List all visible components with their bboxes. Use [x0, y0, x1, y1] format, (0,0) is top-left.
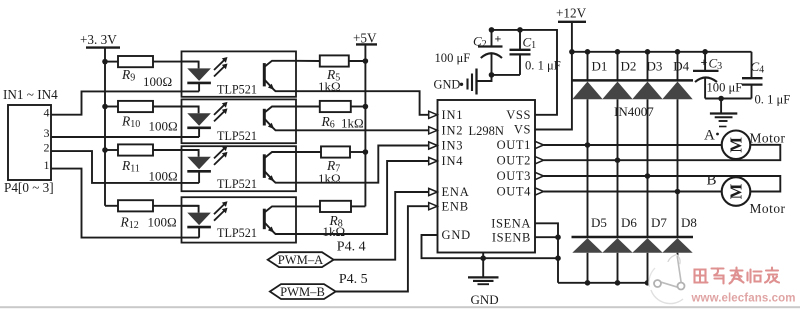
- driver IC U1 L298N box: [438, 100, 536, 253]
- opto4 light emission arrow 1: [214, 203, 226, 215]
- node junction R5: [363, 58, 369, 64]
- svg-text:4: 4: [44, 106, 50, 120]
- svg-text:D2: D2: [621, 59, 637, 74]
- opto3 LED triangle: [187, 157, 211, 170]
- L298N pin OUT1 output arrow: [535, 141, 543, 148]
- svg-text:TLP521: TLP521: [217, 129, 257, 143]
- svg-text:D5: D5: [591, 215, 607, 230]
- wire L298N bottom stub: [482, 253, 484, 259]
- optocoupler U4 TLP521 box: [182, 197, 297, 242]
- node junction D2 top: [615, 49, 621, 55]
- opto3 LED anode lead: [182, 150, 199, 157]
- svg-text:1: 1: [44, 158, 50, 172]
- svg-text:TLP521: TLP521: [217, 177, 257, 191]
- wire opto1 emitter to IN1: [296, 91, 429, 115]
- svg-text:OUT3: OUT3: [497, 169, 531, 183]
- optocoupler U3 TLP521 box: [182, 146, 297, 191]
- svg-text:GND: GND: [434, 78, 461, 92]
- svg-text:+3. 3V: +3. 3V: [80, 32, 117, 47]
- L298N pin ENA input arrow: [429, 188, 438, 195]
- node junction cap bottom: [489, 72, 495, 78]
- wire opto4 emitter to IN4: [296, 161, 429, 234]
- opto4 phototransistor emitter with arrow: [265, 223, 297, 235]
- svg-text:PWM–A: PWM–A: [278, 253, 323, 267]
- wire capacitor bottoms: [492, 74, 521, 76]
- capacitor C4 0.1uF: [751, 52, 753, 78]
- svg-text:M: M: [727, 183, 746, 199]
- node junction C3 top: [702, 49, 708, 55]
- opto4 LED cathode bar: [187, 226, 211, 229]
- svg-text:L298N: L298N: [469, 124, 504, 138]
- wire ISENA to sense node: [535, 223, 558, 282]
- svg-text:0. 1 μF: 0. 1 μF: [755, 93, 791, 107]
- svg-text:OUT4: OUT4: [497, 185, 531, 199]
- opto3 LED cathode bar: [187, 170, 211, 173]
- L298N pin IN4 input arrow: [429, 157, 438, 164]
- wire R7 to +5V rail: [350, 151, 365, 153]
- svg-text:D8: D8: [681, 215, 697, 230]
- wire opto2 collector to R6: [296, 106, 320, 108]
- svg-text:ISENB: ISENB: [492, 230, 531, 244]
- resistor R6 1kohm: [320, 101, 351, 112]
- svg-text:D3: D3: [647, 59, 663, 74]
- node junction OUT2-D2: [615, 157, 621, 163]
- wire +3.3V rail to R12: [105, 205, 118, 207]
- svg-text:IN1 ~ IN4: IN1 ~ IN4: [3, 87, 58, 102]
- svg-text:3: 3: [44, 126, 50, 140]
- wire diode D3 anode down: [647, 99, 649, 237]
- wire OUT4 to motor B left: [544, 191, 722, 193]
- opto3 LED cathode lead: [198, 171, 200, 183]
- svg-text:ENA: ENA: [442, 185, 470, 199]
- svg-text:TLP521: TLP521: [217, 226, 257, 240]
- wire OUT3 to motor B right: [544, 176, 781, 192]
- diode D6 triangle: [602, 238, 632, 253]
- opto3 phototransistor collector: [265, 152, 297, 158]
- wire ISENB to sense node: [535, 236, 558, 238]
- node junction C3 ground: [718, 96, 724, 102]
- svg-text:www.elecfans.com: www.elecfans.com: [691, 293, 796, 305]
- signal tag PWM-A: [268, 252, 334, 267]
- ground GND symbol sideways: [475, 69, 477, 95]
- motor A circle: [722, 131, 751, 160]
- svg-text:IN1: IN1: [442, 108, 464, 122]
- node junction R9 feed: [102, 59, 108, 65]
- wire PWM-B to ENB: [336, 206, 429, 291]
- L298N pin IN1 input arrow: [429, 111, 438, 118]
- wire diode D1 anode down: [587, 99, 589, 237]
- diode D1-D4 common cathode bar: [572, 79, 694, 82]
- node junction R10 feed: [102, 104, 108, 110]
- opto1 phototransistor base bar: [263, 63, 266, 86]
- svg-text:100 μF: 100 μF: [435, 51, 471, 65]
- svg-text:1kΩ: 1kΩ: [341, 116, 364, 131]
- optocoupler U2 TLP521 box: [182, 99, 297, 143]
- wire OUT1 to motor A left: [544, 144, 722, 146]
- svg-text:IN4007: IN4007: [614, 104, 654, 119]
- node junction D4 top: [675, 49, 681, 55]
- node junction D3 top: [645, 49, 651, 55]
- resistor R9 100ohm: [118, 56, 153, 67]
- opto2 light emission arrow 2: [214, 110, 226, 122]
- svg-text:ENB: ENB: [442, 199, 469, 213]
- wire OUT2 to motor A right: [544, 145, 781, 160]
- svg-text:D7: D7: [651, 215, 667, 230]
- wire rail to diode D2: [617, 52, 619, 81]
- node junction OUT3-D3: [645, 173, 651, 179]
- node junction C2 top: [489, 27, 495, 33]
- diode D8 triangle: [662, 238, 692, 253]
- opto1 LED cathode bar: [187, 82, 211, 85]
- node junction R6: [363, 104, 369, 110]
- svg-text:VSS: VSS: [506, 108, 531, 122]
- svg-text:TLP521: TLP521: [217, 83, 257, 97]
- watermark text dianzifashaoyou: [695, 270, 708, 283]
- motor B circle: [722, 177, 751, 206]
- opto2 light emission arrow 1: [214, 103, 226, 115]
- opto1 light emission arrow 1: [214, 58, 226, 70]
- svg-text:PWM–B: PWM–B: [280, 285, 325, 299]
- L298N pin OUT3 output arrow: [535, 172, 543, 179]
- wire rail to diode D1: [587, 52, 589, 81]
- node junction L298N gnd: [480, 255, 486, 261]
- svg-text:Motor: Motor: [750, 201, 786, 216]
- wire GND pin to ground rail: [422, 235, 559, 258]
- scan artifact grey strip at bottom: [0, 306, 800, 308]
- svg-text:+: +: [701, 55, 708, 69]
- svg-text:IN2: IN2: [442, 124, 464, 138]
- wire diode D7 anode down: [647, 253, 649, 283]
- wire opto2 emitter to IN2: [296, 129, 429, 131]
- opto1 LED triangle: [187, 68, 211, 81]
- wire VS pin to +12V: [535, 22, 572, 130]
- svg-text:100Ω: 100Ω: [143, 74, 172, 89]
- node junction +12V rail: [569, 49, 575, 55]
- svg-text:+12V: +12V: [556, 6, 587, 21]
- node junction C1 top: [517, 27, 523, 33]
- resistor R12 100ohm: [118, 200, 153, 211]
- opto2 LED cathode lead: [198, 128, 200, 137]
- watermark logo white badge: [667, 255, 680, 268]
- wire opto3 emitter to IN3: [296, 146, 429, 183]
- wire R5 to +5V rail: [349, 60, 366, 62]
- diode D1 IN4007 triangle: [572, 82, 602, 100]
- wire opto4 collector to R8: [296, 205, 320, 207]
- L298N pin IN3 input arrow: [429, 142, 438, 149]
- wire C3 C4 bottoms: [705, 98, 751, 100]
- L298N pin IN2 input arrow: [429, 127, 438, 134]
- ground symbol right: [720, 99, 722, 114]
- opto3 light emission arrow 2: [214, 153, 226, 165]
- wire VSS pin to capacitor top rail: [492, 30, 558, 115]
- wire rail to diode D3: [647, 52, 649, 81]
- capacitor C1 0.1uF: [519, 30, 521, 50]
- diode D5-D8 common cathode bar: [572, 236, 694, 239]
- wire opto1 collector to R5: [296, 60, 320, 62]
- svg-text:OUT1: OUT1: [497, 138, 531, 152]
- wire R10 to opto2 LED anode: [153, 106, 199, 108]
- svg-text:0. 1 μF: 0. 1 μF: [525, 59, 561, 73]
- opto2 phototransistor base bar: [263, 109, 266, 126]
- wire pin1 to opto4 LED cathode: [51, 169, 199, 238]
- diode D5 triangle: [572, 238, 602, 253]
- node junction sense-gnd: [555, 255, 561, 261]
- opto2 LED anode lead: [182, 107, 199, 114]
- capacitor C2 100uF electrolytic: [491, 30, 493, 47]
- svg-text:100 μF: 100 μF: [707, 81, 743, 95]
- svg-text:P4. 5: P4. 5: [339, 272, 368, 287]
- node junction R11 feed: [102, 147, 108, 153]
- node junction D5 bottom: [585, 280, 591, 286]
- wire pin2 to opto3 LED cathode: [51, 151, 199, 183]
- opto1 LED cathode lead: [198, 83, 200, 92]
- opto3 phototransistor emitter with arrow: [265, 171, 297, 183]
- L298N pin ENB input arrow: [429, 203, 438, 210]
- wire pin3 to opto2 LED cathode: [51, 136, 199, 138]
- opto4 phototransistor collector: [265, 206, 297, 212]
- svg-text:+: +: [495, 32, 502, 46]
- opto1 phototransistor collector: [265, 61, 297, 67]
- node junction ISENB: [555, 234, 561, 240]
- wire +3.3V rail to R9: [105, 61, 118, 63]
- wire +12V top rail: [572, 51, 752, 53]
- diode D2 IN4007 triangle: [602, 82, 632, 100]
- optocoupler U1 TLP521 box: [182, 51, 297, 96]
- svg-text:VS: VS: [514, 123, 531, 137]
- wire +3.3V rail to R11: [105, 149, 118, 151]
- resistor R7 1kohm: [321, 146, 350, 157]
- wire R12 to opto4 LED anode: [153, 205, 199, 207]
- svg-text:OUT2: OUT2: [497, 153, 531, 167]
- opto2 phototransistor emitter with arrow: [265, 119, 297, 131]
- opto1 LED anode lead: [182, 62, 199, 69]
- diode D4 IN4007 triangle: [662, 82, 692, 100]
- opto1 light emission arrow 2: [214, 65, 226, 77]
- wire diode D5 anode down: [587, 253, 589, 283]
- node junction OUT4-D4: [675, 189, 681, 195]
- ground symbol bottom: [482, 258, 484, 277]
- svg-text:GND: GND: [471, 292, 499, 307]
- connector P4 box: [8, 105, 51, 180]
- L298N pin OUT4 output arrow: [535, 188, 543, 195]
- resistor R10 100ohm: [118, 101, 153, 112]
- signal tag PWM-B: [270, 284, 336, 299]
- node junction R7: [363, 149, 369, 155]
- wire +5V rail vertical: [364, 44, 366, 206]
- svg-text:A: A: [704, 128, 715, 144]
- L298N pin OUT2 output arrow: [535, 157, 543, 164]
- svg-text:1kΩ: 1kΩ: [323, 224, 346, 239]
- wire bottom ground rail: [558, 282, 678, 284]
- node junction D6 bottom: [615, 280, 621, 286]
- resistor R8 1kohm: [320, 201, 351, 212]
- opto4 LED triangle: [187, 213, 211, 226]
- opto2 phototransistor collector: [265, 107, 297, 113]
- wire cap bottom to GND bars: [477, 75, 492, 81]
- wire R6 to +5V rail: [351, 106, 366, 108]
- wire +3.3V rail to R10: [105, 106, 118, 108]
- opto4 phototransistor base bar: [263, 209, 266, 230]
- wire diode D4 anode down: [677, 99, 679, 237]
- power +3.3V bar: [86, 46, 120, 48]
- resistor R5 1kohm: [320, 55, 349, 66]
- svg-text:Motor: Motor: [750, 131, 786, 146]
- wire opto3 collector to R7: [296, 151, 321, 153]
- svg-text:IN4: IN4: [442, 154, 464, 168]
- svg-text:IN3: IN3: [442, 139, 464, 153]
- svg-text:D1: D1: [592, 59, 608, 74]
- wire R9 to opto1 LED anode: [153, 61, 199, 63]
- svg-text:D6: D6: [621, 215, 637, 230]
- svg-text:B: B: [707, 173, 717, 189]
- opto1 phototransistor emitter with arrow: [265, 80, 297, 92]
- node junction D7 bottom: [645, 280, 651, 286]
- resistor R11 100ohm: [118, 144, 153, 155]
- wire diode D8 anode down: [677, 253, 679, 283]
- svg-text:M: M: [727, 137, 746, 153]
- svg-text:2: 2: [44, 140, 50, 154]
- svg-text:D4: D4: [673, 59, 689, 74]
- wire rail to diode D4: [677, 52, 679, 81]
- opto2 LED triangle: [187, 113, 211, 126]
- opto3 phototransistor base bar: [263, 154, 266, 178]
- svg-text:GND: GND: [442, 228, 471, 242]
- opto3 light emission arrow 1: [214, 147, 226, 159]
- diode D3 IN4007 triangle: [632, 82, 662, 100]
- svg-text:1kΩ: 1kΩ: [318, 171, 341, 186]
- wire diode D6 anode down: [617, 253, 619, 283]
- wire PWM-A to ENA: [334, 192, 429, 260]
- node junction D1 top: [585, 49, 591, 55]
- svg-text:100Ω: 100Ω: [149, 119, 178, 134]
- diode D7 triangle: [632, 238, 662, 253]
- wire diode D2 anode down: [617, 99, 619, 237]
- wire R8 to +5V rail: [351, 205, 365, 207]
- power +5V bar: [356, 43, 377, 45]
- wire pin4 to opto1 LED cathode: [51, 91, 199, 114]
- node junction OUT1-D1: [585, 142, 591, 148]
- svg-text:P4. 4: P4. 4: [337, 240, 366, 255]
- opto2 LED cathode bar: [187, 127, 211, 130]
- svg-text:100Ω: 100Ω: [149, 169, 178, 184]
- svg-text:ISENA: ISENA: [491, 217, 531, 231]
- opto4 LED cathode lead: [198, 227, 200, 238]
- opto4 light emission arrow 2: [214, 209, 226, 221]
- svg-text:100Ω: 100Ω: [148, 215, 177, 230]
- power +12V bar: [558, 21, 586, 23]
- opto4 LED anode lead: [182, 206, 199, 213]
- wire +3.3V rail vertical: [104, 48, 106, 206]
- wire R11 to opto3 LED anode: [153, 149, 199, 151]
- capacitor C3 100uF electrolytic: [704, 52, 706, 71]
- svg-text:P4[0 ~ 3]: P4[0 ~ 3]: [4, 180, 54, 195]
